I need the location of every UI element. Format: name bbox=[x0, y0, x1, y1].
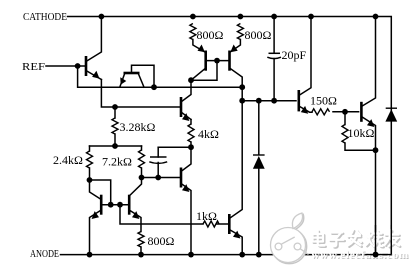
svg-text:4kΩ: 4kΩ bbox=[198, 127, 219, 141]
svg-text:800Ω: 800Ω bbox=[148, 234, 175, 248]
svg-text:CATHODE: CATHODE bbox=[23, 12, 67, 23]
svg-text:ANODE: ANODE bbox=[30, 248, 59, 260]
svg-text:800Ω: 800Ω bbox=[197, 28, 224, 42]
svg-text:2.4kΩ: 2.4kΩ bbox=[53, 153, 83, 167]
svg-text:20pF: 20pF bbox=[282, 48, 307, 62]
svg-text:7.2kΩ: 7.2kΩ bbox=[102, 155, 132, 169]
svg-text:REF: REF bbox=[22, 61, 45, 73]
svg-text:1kΩ: 1kΩ bbox=[196, 209, 217, 223]
svg-text:150Ω: 150Ω bbox=[310, 94, 337, 108]
svg-text:800Ω: 800Ω bbox=[245, 28, 272, 42]
svg-text:3.28kΩ: 3.28kΩ bbox=[120, 120, 156, 134]
svg-text:www.elecfans.com: www.elecfans.com bbox=[311, 249, 408, 261]
svg-text:10kΩ: 10kΩ bbox=[348, 126, 375, 140]
